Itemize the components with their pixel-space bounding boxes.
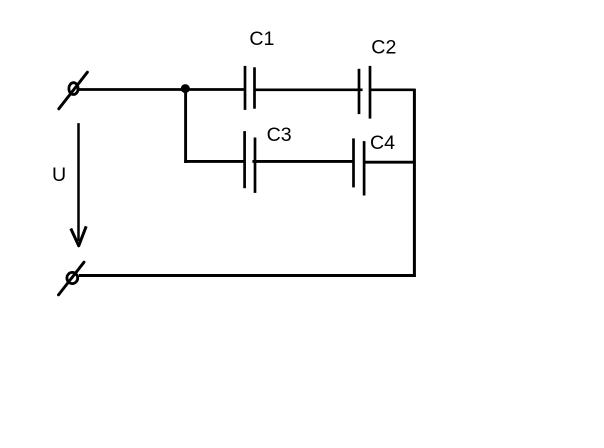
wire right vertical: [413, 89, 416, 277]
wire middle segment 3 (C4 to right vertical): [364, 161, 416, 164]
terminal bottom-left: [59, 262, 85, 295]
svg-text:C1: C1: [249, 28, 274, 50]
wire middle segment 1 (drop to C3): [184, 160, 244, 163]
svg-text:C2: C2: [371, 36, 396, 58]
capacitor C3: [245, 131, 255, 193]
wire middle segment 2 (C3 to C4, crosses C3 right plate slightly): [252, 160, 353, 163]
wire top segment 2 (C1 to C2, crosses C2 left plate slightly): [256, 88, 363, 91]
svg-text:C4: C4: [370, 132, 395, 154]
wire vertical drop from junction: [184, 89, 187, 163]
capacitor C4: [354, 138, 365, 195]
capacitor C1: [245, 66, 255, 110]
wire bottom: [79, 274, 416, 277]
terminal top-left: [59, 72, 88, 109]
wire top segment 1 (terminal to C1): [79, 88, 244, 91]
svg-text:U: U: [52, 164, 66, 186]
arrow U (voltage direction): [71, 123, 86, 246]
svg-text:C3: C3: [267, 124, 292, 146]
node junction dot: [181, 84, 190, 93]
capacitor C2: [359, 66, 370, 119]
wire top segment 3 (C2 to right corner): [370, 88, 414, 91]
